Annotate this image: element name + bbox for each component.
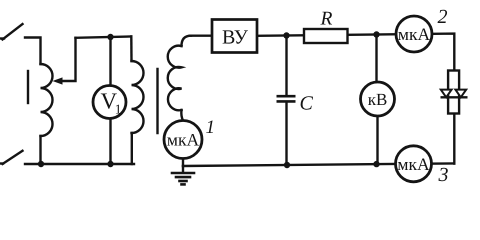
svg-text:мкА: мкА [398, 24, 431, 44]
svg-text:1: 1 [115, 102, 122, 117]
svg-text:C: C [300, 93, 314, 115]
svg-text:мкА: мкА [167, 130, 200, 150]
svg-text:2: 2 [438, 6, 448, 28]
svg-text:3: 3 [438, 164, 449, 186]
svg-text:ВУ: ВУ [222, 27, 249, 49]
svg-text:мкА: мкА [397, 154, 430, 174]
svg-text:кВ: кВ [368, 90, 388, 109]
svg-text:R: R [320, 9, 333, 30]
svg-text:1: 1 [206, 117, 216, 138]
